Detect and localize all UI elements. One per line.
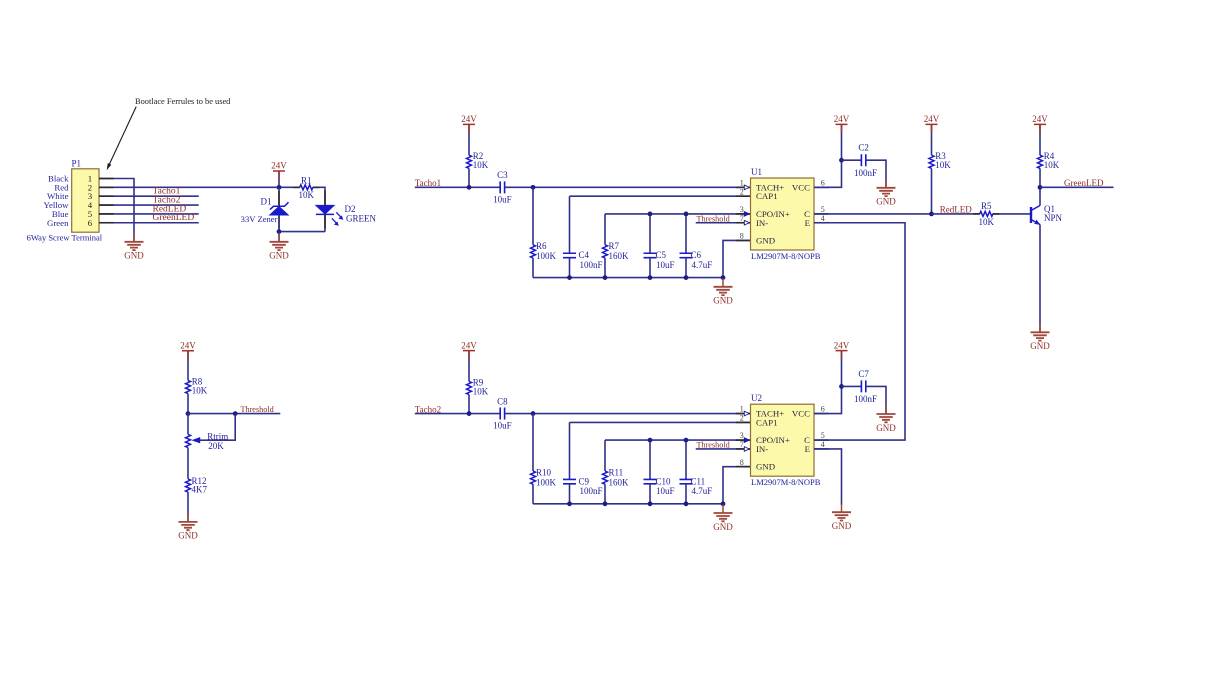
svg-text:33V Zener: 33V Zener	[241, 214, 278, 224]
svg-text:3: 3	[740, 205, 744, 214]
svg-text:U1: U1	[751, 167, 762, 177]
svg-text:100nF: 100nF	[854, 394, 877, 404]
svg-text:GND: GND	[178, 531, 198, 541]
svg-text:GND: GND	[124, 251, 144, 261]
svg-text:CAP1: CAP1	[756, 417, 778, 427]
svg-text:24V: 24V	[461, 114, 477, 124]
svg-text:100nF: 100nF	[580, 260, 603, 270]
svg-text:GreenLED: GreenLED	[153, 213, 195, 223]
svg-text:C6: C6	[691, 250, 702, 260]
svg-text:4.7uF: 4.7uF	[692, 260, 713, 270]
svg-text:GND: GND	[1030, 341, 1050, 351]
svg-text:4: 4	[821, 440, 825, 449]
svg-text:4: 4	[821, 214, 825, 223]
svg-text:10K: 10K	[473, 386, 489, 396]
svg-text:R6: R6	[536, 241, 547, 251]
svg-text:VCC: VCC	[792, 409, 810, 419]
svg-text:10uF: 10uF	[656, 260, 675, 270]
svg-text:Threshold: Threshold	[696, 441, 729, 450]
svg-text:Green: Green	[47, 218, 69, 228]
svg-text:LM2907M-8/NOPB: LM2907M-8/NOPB	[751, 477, 821, 487]
svg-text:24V: 24V	[180, 341, 196, 351]
svg-text:10K: 10K	[935, 160, 951, 170]
svg-text:R11: R11	[609, 467, 624, 477]
svg-text:GND: GND	[876, 423, 896, 433]
svg-text:100K: 100K	[536, 251, 557, 261]
svg-text:C10: C10	[656, 476, 672, 486]
svg-text:160K: 160K	[609, 477, 630, 487]
svg-text:C9: C9	[579, 476, 590, 486]
svg-text:10K: 10K	[192, 386, 208, 396]
svg-text:100K: 100K	[536, 477, 557, 487]
svg-text:Bootlace Ferrules to be used: Bootlace Ferrules to be used	[135, 97, 231, 106]
svg-text:VCC: VCC	[792, 182, 810, 192]
svg-text:8: 8	[740, 458, 744, 467]
svg-text:D2: D2	[345, 204, 356, 214]
svg-text:P1: P1	[72, 159, 82, 169]
svg-text:E: E	[805, 444, 810, 454]
svg-text:LM2907M-8/NOPB: LM2907M-8/NOPB	[751, 251, 821, 261]
svg-text:Threshold: Threshold	[696, 214, 729, 223]
svg-text:NPN: NPN	[1044, 213, 1063, 223]
svg-text:10uF: 10uF	[656, 486, 675, 496]
svg-text:10K: 10K	[1044, 160, 1060, 170]
svg-text:6: 6	[88, 218, 93, 228]
svg-text:10K: 10K	[299, 190, 315, 200]
svg-text:IN-: IN-	[756, 444, 768, 454]
svg-text:GND: GND	[713, 522, 733, 532]
svg-text:CAP1: CAP1	[756, 191, 778, 201]
svg-text:6Way Screw Terminal: 6Way Screw Terminal	[27, 233, 103, 243]
svg-text:100nF: 100nF	[580, 486, 603, 496]
svg-text:C5: C5	[656, 250, 667, 260]
svg-text:7: 7	[740, 214, 744, 223]
svg-text:RedLED: RedLED	[940, 205, 972, 215]
svg-text:C4: C4	[579, 250, 590, 260]
svg-text:1: 1	[740, 178, 744, 187]
svg-text:GND: GND	[756, 235, 775, 245]
svg-text:10K: 10K	[979, 217, 995, 227]
svg-text:R5: R5	[981, 201, 992, 211]
svg-text:IN-: IN-	[756, 218, 768, 228]
svg-text:C11: C11	[691, 476, 706, 486]
svg-text:100nF: 100nF	[854, 168, 877, 178]
svg-text:Threshold: Threshold	[240, 405, 273, 414]
svg-text:7: 7	[740, 440, 744, 449]
svg-text:8: 8	[740, 232, 744, 241]
svg-text:5: 5	[821, 205, 825, 214]
svg-text:R1: R1	[301, 176, 312, 186]
svg-text:160K: 160K	[609, 251, 630, 261]
svg-text:10uF: 10uF	[493, 421, 512, 431]
svg-text:R10: R10	[536, 467, 552, 477]
svg-text:D1: D1	[261, 197, 272, 207]
svg-text:24V: 24V	[834, 340, 850, 350]
svg-text:10K: 10K	[473, 160, 489, 170]
svg-text:C3: C3	[497, 170, 508, 180]
svg-text:3: 3	[740, 431, 744, 440]
svg-text:2: 2	[740, 187, 744, 196]
svg-text:R7: R7	[609, 241, 620, 251]
svg-text:24V: 24V	[1032, 114, 1048, 124]
svg-text:C2: C2	[858, 143, 869, 153]
svg-text:GND: GND	[713, 296, 733, 306]
svg-text:Rtrim: Rtrim	[207, 431, 228, 441]
svg-text:1: 1	[740, 405, 744, 414]
svg-text:2: 2	[740, 414, 744, 423]
svg-text:U2: U2	[751, 393, 762, 403]
svg-text:4K7: 4K7	[192, 484, 208, 494]
svg-text:GREEN: GREEN	[346, 213, 376, 223]
svg-text:10uF: 10uF	[493, 194, 512, 204]
svg-text:5: 5	[821, 431, 825, 440]
svg-text:GND: GND	[876, 197, 896, 207]
svg-text:C7: C7	[858, 369, 869, 379]
svg-text:24V: 24V	[834, 114, 850, 124]
svg-text:E: E	[805, 218, 810, 228]
svg-text:4.7uF: 4.7uF	[692, 486, 713, 496]
svg-text:C8: C8	[497, 396, 508, 406]
svg-text:20K: 20K	[208, 441, 224, 451]
svg-text:24V: 24V	[271, 161, 287, 171]
svg-text:6: 6	[821, 178, 825, 187]
svg-text:GreenLED: GreenLED	[1064, 178, 1104, 188]
svg-text:GND: GND	[269, 251, 289, 261]
svg-text:GND: GND	[832, 521, 852, 531]
svg-text:24V: 24V	[461, 340, 477, 350]
svg-text:GND: GND	[756, 462, 775, 472]
svg-text:24V: 24V	[924, 114, 940, 124]
svg-text:6: 6	[821, 405, 825, 414]
